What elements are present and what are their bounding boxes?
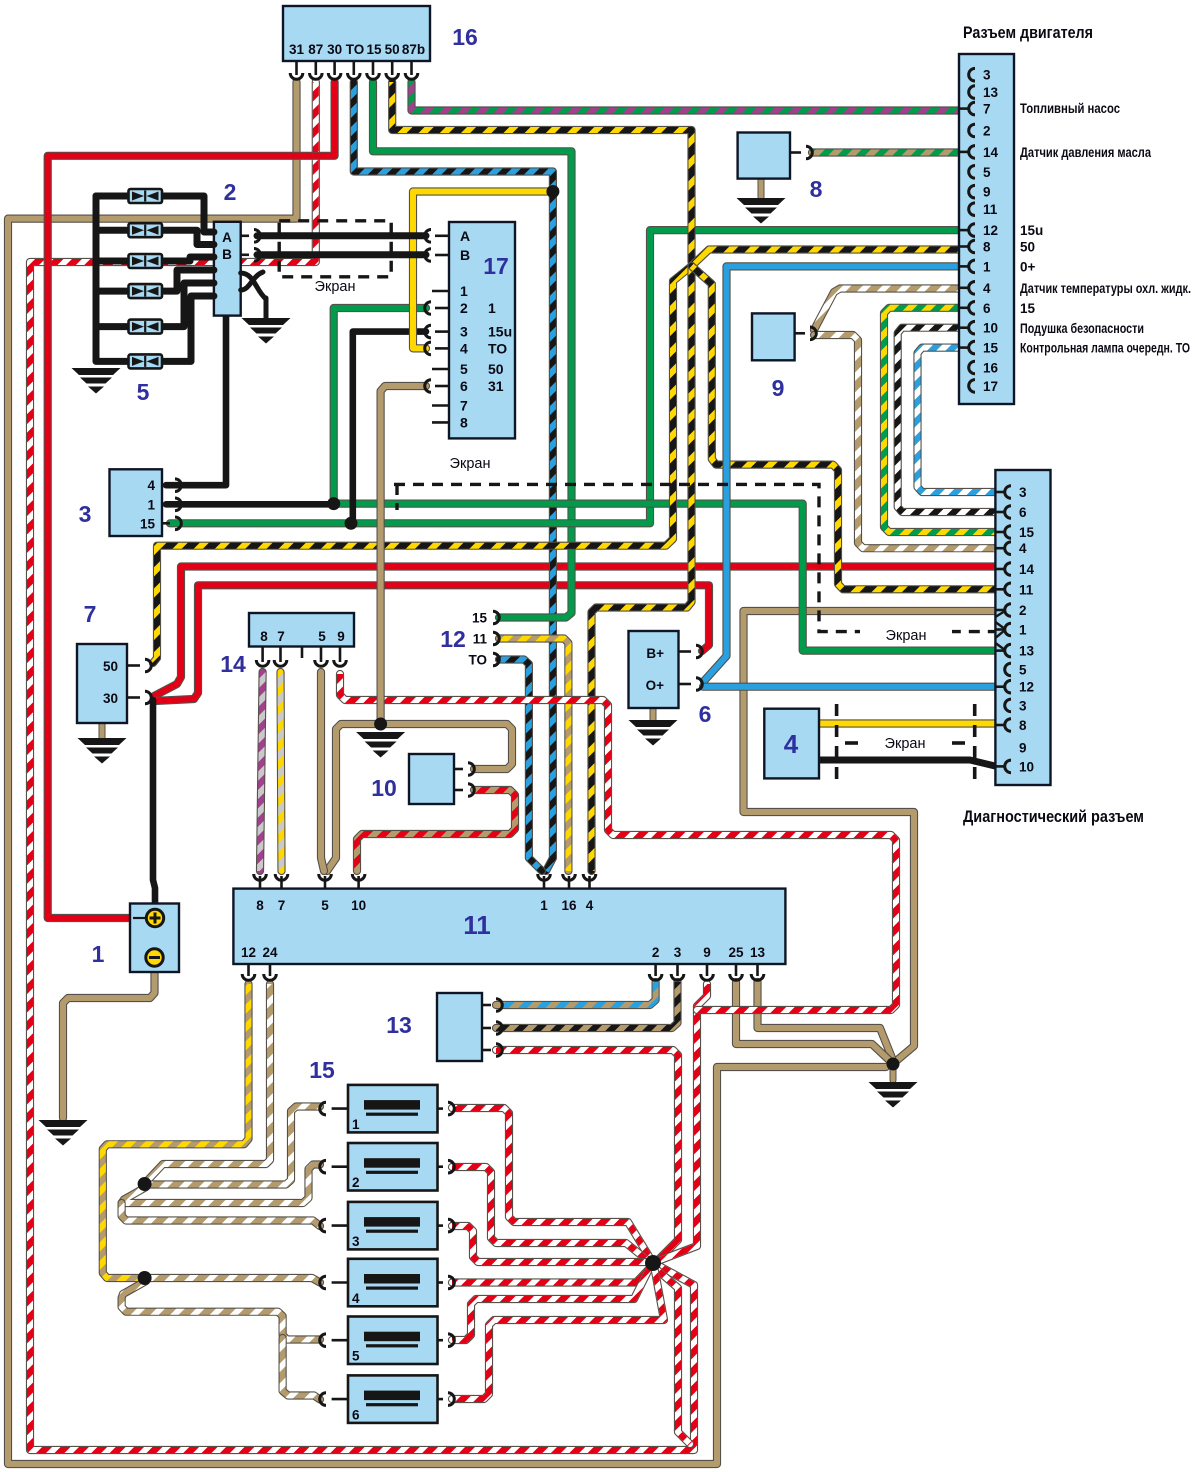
battery plus terminal: [133, 917, 147, 919]
component 4 box: [764, 709, 819, 779]
wire green/purple relay87b to engine pin7: [412, 82, 996, 111]
component 13 box: [437, 993, 482, 1061]
wire red pin30 to B+ of 6: [154, 585, 709, 701]
svg-text:12: 12: [983, 223, 998, 238]
svg-text:15: 15: [309, 1057, 335, 1083]
svg-text:50: 50: [103, 659, 118, 674]
svg-text:50: 50: [1020, 240, 1035, 255]
wire red pin30 to diag pin14: [154, 567, 995, 697]
svg-text:6: 6: [983, 301, 991, 316]
injector 6 symbol: [129, 354, 163, 368]
svg-text:8: 8: [256, 898, 264, 913]
svg-text:1: 1: [540, 898, 548, 913]
wire yellow comp4 to diag pin8: [819, 719, 995, 727]
wire tan/white dot1 to coil2: [122, 1165, 320, 1204]
svg-text:3: 3: [674, 945, 682, 960]
wire black comp7 pin30 to battery plus: [153, 700, 155, 906]
svg-text:1: 1: [488, 300, 496, 316]
injector 5 symbol: [129, 320, 163, 334]
svg-text:15: 15: [472, 611, 488, 626]
wire black/blue relay TO to block11 pin1: [354, 82, 553, 871]
ignition coil 4: [348, 1259, 438, 1307]
svg-text:14: 14: [983, 145, 999, 160]
battery minus terminal: [146, 949, 163, 966]
svg-text:25: 25: [728, 945, 744, 960]
svg-text:15u: 15u: [1020, 223, 1043, 238]
engine connector pins: [959, 68, 975, 392]
svg-text:12: 12: [1019, 680, 1034, 695]
connector 7 pins: [127, 659, 151, 704]
wire purple/gray comp14 pin8 to block11 pin8: [260, 672, 263, 871]
svg-text:7: 7: [983, 102, 991, 117]
svg-text:Подушка безопасности: Подушка безопасности: [1020, 321, 1144, 336]
connector 2 pins A B: [241, 230, 261, 262]
component 8 pin: [790, 146, 812, 159]
wire inj2 left: [96, 227, 129, 234]
wire red/white coil6 to junction: [452, 1271, 664, 1399]
svg-text:TO: TO: [488, 340, 507, 356]
component 10 box: [409, 754, 454, 804]
svg-text:A: A: [222, 230, 232, 245]
svg-text:4: 4: [460, 340, 468, 356]
svg-text:6: 6: [699, 701, 712, 727]
svg-text:50: 50: [385, 42, 400, 57]
wire tan comp6 ground stem: [650, 708, 657, 720]
connector 17 pins: [425, 230, 449, 423]
svg-text:17: 17: [983, 379, 998, 394]
svg-text:30: 30: [327, 42, 342, 57]
svg-text:13: 13: [386, 1012, 412, 1038]
svg-text:14: 14: [220, 651, 246, 677]
svg-text:Датчик температуры охл. жидк.: Датчик температуры охл. жидк.: [1020, 281, 1191, 296]
svg-text:3: 3: [983, 68, 991, 83]
battery 1 box: [130, 904, 179, 973]
diagonal stubs diag pins 2-1-13: [995, 611, 1005, 650]
svg-text:15: 15: [366, 42, 382, 57]
wire tan/red comp10 to block11 pin10: [357, 790, 515, 871]
wire tan ground loop (relay 31 to main ground): [8, 82, 886, 1464]
shield dashed rect around comp2 A/B wires: [279, 221, 391, 277]
svg-text:Экран: Экран: [885, 736, 926, 752]
wire yellow 17pin4 up to dot: [413, 192, 553, 349]
svg-text:4: 4: [784, 729, 799, 759]
svg-text:3: 3: [1019, 698, 1027, 713]
wire black/blue 12 TO to block11 pin1: [499, 660, 542, 872]
svg-text:17: 17: [483, 253, 509, 279]
svg-text:Контрольная лампа очередн. ТО: Контрольная лампа очередн. ТО: [1020, 341, 1190, 356]
junction coil dot1: [138, 1177, 152, 1191]
connector 14 box: [249, 613, 354, 647]
svg-text:4: 4: [983, 281, 991, 296]
svg-text:11: 11: [463, 910, 491, 940]
svg-text:TO: TO: [346, 42, 365, 57]
engine connector box: [959, 54, 1014, 404]
diagnostic connector pins: [995, 486, 1011, 773]
wire inj5 right: [162, 283, 214, 327]
svg-text:4: 4: [352, 1291, 360, 1306]
wire crossover stem: [264, 298, 269, 318]
connector 2 box: [214, 222, 241, 316]
junction main ground dot: [887, 1058, 900, 1071]
wire tan/white comp9 to diag pin4: [814, 335, 995, 548]
svg-text:31: 31: [488, 378, 504, 394]
svg-text:8: 8: [1019, 718, 1027, 733]
block 11 top pins: [254, 874, 596, 889]
wire inj1 left: [96, 193, 129, 200]
wire inj6 left: [96, 358, 129, 365]
wire B wire: [257, 251, 426, 258]
ignition coil 5: [348, 1317, 438, 1365]
svg-text:5: 5: [460, 361, 468, 377]
wire tan block11 pin25 to ground: [736, 982, 889, 1060]
svg-text:24: 24: [262, 945, 278, 960]
relay 16 pins: [290, 61, 418, 79]
svg-text:5: 5: [321, 898, 329, 913]
svg-text:3: 3: [460, 324, 468, 340]
connector 7 box: [77, 644, 127, 723]
svg-text:31: 31: [289, 42, 305, 57]
svg-text:1: 1: [352, 1117, 360, 1132]
injector 3 symbol: [129, 254, 163, 268]
svg-text:2: 2: [352, 1175, 360, 1190]
wire tan/yellow comp12 pin11 to block11 pin16: [499, 639, 568, 872]
wire tan/white comp9 to engine pin4: [814, 289, 995, 331]
svg-text:10: 10: [983, 321, 998, 336]
shield dashes comp4: [837, 704, 975, 782]
wire black comp3 pin1 to junction: [166, 501, 334, 508]
wire green 17pin2 to junction: [334, 308, 426, 504]
wire A wire: [257, 232, 426, 239]
svg-text:15: 15: [1020, 301, 1036, 316]
ignition coil 3: [348, 1202, 438, 1250]
block 11 bottom pins: [242, 964, 764, 980]
wire injector left bus: [93, 196, 100, 361]
svg-text:9: 9: [703, 945, 711, 960]
wire tan/green comp8 to engine pin14: [812, 148, 995, 156]
wire tan/white dot2 to coil4: [145, 1278, 320, 1283]
wire tan/yellow block11 pin12 to coil dot2: [103, 984, 249, 1278]
svg-text:12: 12: [440, 626, 466, 652]
svg-text:15: 15: [140, 516, 156, 531]
wire tan battery minus to ground: [63, 964, 155, 1118]
wire tan/white dot2 to coil5: [122, 1281, 320, 1340]
svg-text:B+: B+: [646, 646, 664, 661]
wire tan/white dot1 to coil3: [122, 1203, 320, 1226]
svg-text:6: 6: [1019, 505, 1027, 520]
diagnostic connector box: [995, 470, 1050, 785]
svg-text:2: 2: [224, 179, 237, 205]
ignition coil 1: [348, 1085, 438, 1133]
svg-text:0+: 0+: [1020, 260, 1036, 275]
injector 4 symbol: [129, 284, 163, 298]
wire inj3 left: [96, 258, 129, 265]
wire red/white junction lower branch: [655, 1268, 690, 1444]
coil 6 pins: [320, 1393, 455, 1406]
wire black 17pin3 to green junction: [353, 332, 426, 524]
svg-text:A: A: [460, 228, 470, 244]
wire black comp4 to diag pin10: [819, 760, 995, 766]
wire blue engine pin1 to O+: [704, 266, 995, 681]
svg-text:4: 4: [586, 898, 594, 913]
svg-text:1: 1: [147, 497, 155, 512]
wire tan/white block11 pin24 to coil dot1: [147, 984, 270, 1181]
svg-text:Экран: Экран: [450, 456, 491, 472]
svg-text:5: 5: [352, 1349, 360, 1364]
wire inj4 left: [96, 288, 129, 295]
wire red relay30 to battery: [48, 82, 335, 918]
injector 2 symbol: [129, 223, 163, 237]
svg-text:9: 9: [772, 375, 785, 401]
svg-text:15: 15: [1019, 525, 1035, 540]
coil 3 pins: [320, 1219, 455, 1232]
junction tan ground junction dot: [374, 718, 387, 731]
ignition coil 6: [348, 1375, 438, 1423]
coil 1 pins: [320, 1102, 455, 1115]
wire black/yellow to engine pin8: [692, 250, 996, 267]
svg-text:11: 11: [473, 632, 488, 647]
ground comp8: [737, 198, 786, 224]
svg-text:1: 1: [1019, 623, 1027, 638]
wire red/white relay 87 loop: [30, 82, 694, 1450]
svg-text:10: 10: [371, 775, 397, 801]
wire green relay15 to comp12 pin15: [373, 82, 572, 618]
wire inj4 right: [162, 270, 214, 291]
wire crossover2: [241, 272, 263, 290]
svg-text:11: 11: [1019, 582, 1034, 597]
wire blue/white engine pin15 to diag pin3: [918, 348, 996, 492]
wire green engine pin12 to comp3 pin15: [170, 230, 995, 523]
junction coil dot2: [138, 1271, 152, 1285]
component 13 pins: [482, 999, 502, 1057]
svg-text:7: 7: [277, 629, 285, 644]
wire red/white coil3 to junction: [452, 1226, 645, 1262]
ground injectors: [72, 368, 121, 394]
svg-text:9: 9: [337, 629, 345, 644]
junction green-black junction dot: [345, 517, 358, 530]
wire tan diag pin2 to ground junction: [744, 611, 996, 1062]
svg-text:9: 9: [1019, 741, 1027, 756]
svg-text:30: 30: [103, 691, 118, 706]
junction yellow-blue/black dot: [546, 185, 559, 198]
svg-text:50: 50: [488, 361, 504, 377]
ground comp7: [78, 738, 127, 764]
component 8 box: [738, 133, 790, 179]
connector 6 pins: [679, 645, 703, 690]
wire inj3 right: [162, 257, 214, 261]
block 11 box: [233, 889, 785, 964]
ground main: [869, 1082, 918, 1108]
wire tan/white dot2 to coil6: [283, 1338, 320, 1400]
svg-text:5: 5: [983, 165, 991, 180]
wire red/white coil1 to junction: [452, 1108, 650, 1258]
wire red/white coil4 to junction: [452, 1268, 650, 1283]
svg-text:15u: 15u: [488, 324, 512, 340]
wire red/white comp14 pin9 long loop: [340, 674, 896, 1010]
svg-text:2: 2: [983, 124, 991, 139]
wire inj5 left: [96, 323, 129, 330]
wire red/white coil2 to junction: [452, 1167, 647, 1260]
wire black/yellow to block11 pin4: [592, 266, 692, 871]
svg-text:2: 2: [1019, 603, 1027, 618]
wire tan ground junction to block11 pin5: [327, 724, 381, 871]
wire tan ground junction to comp10: [381, 724, 512, 769]
svg-text:16: 16: [561, 898, 577, 913]
wire tan/white dot1 to coil1: [145, 1107, 320, 1185]
svg-text:TO: TO: [468, 653, 487, 668]
svg-text:8: 8: [983, 240, 991, 255]
wire tan block11 pin13 to ground: [758, 982, 893, 1058]
svg-text:87: 87: [308, 42, 323, 57]
svg-text:Экран: Экран: [315, 279, 356, 295]
svg-text:12: 12: [241, 945, 256, 960]
wire black comp3 pin4 up to comp2: [166, 316, 226, 485]
svg-text:3: 3: [1019, 485, 1027, 500]
connector 17 box: [449, 222, 515, 438]
svg-text:87b: 87b: [402, 42, 425, 57]
svg-text:9: 9: [983, 185, 991, 200]
wire tan comp7 ground stem: [99, 723, 106, 738]
svg-text:15: 15: [983, 341, 999, 356]
shield dashed line comp2 to diag pin1: [394, 484, 995, 631]
connector 6 box: [629, 631, 679, 708]
svg-text:8: 8: [460, 414, 468, 430]
wire green/yellow engine pin6 to diag pin15: [884, 308, 995, 532]
svg-text:8: 8: [260, 629, 268, 644]
wire green junction to diag pin13: [334, 504, 995, 651]
wire tan main ground stem: [890, 1064, 897, 1080]
connector 3 pins: [162, 479, 181, 530]
wire inj1 right: [162, 196, 214, 232]
wire tan comp14 pin5 to block11 pin5: [321, 672, 324, 871]
wire black/white engine pin10 to diag pin6: [898, 328, 995, 512]
ground tan 17pin6: [356, 732, 405, 758]
svg-text:1: 1: [92, 941, 105, 967]
junction green junction dot: [327, 497, 340, 510]
coil 4 pins: [320, 1276, 455, 1289]
svg-text:13: 13: [983, 85, 999, 100]
svg-text:2: 2: [460, 300, 468, 316]
svg-text:6: 6: [352, 1407, 360, 1422]
svg-text:14: 14: [1019, 562, 1035, 577]
wire yellow/gray comp14 pin7 to block11 pin7: [281, 672, 282, 871]
svg-text:O+: O+: [646, 678, 665, 693]
wire blue O+ to diag pin12: [703, 683, 995, 691]
svg-text:4: 4: [147, 478, 155, 493]
wire black/yellow to comp7 pin50: [153, 266, 692, 663]
svg-text:5: 5: [137, 379, 150, 405]
ground comp6: [629, 720, 678, 746]
svg-text:B: B: [222, 247, 232, 262]
ground comp2 shield: [242, 318, 291, 344]
svg-text:Топливный насос: Топливный насос: [1020, 101, 1120, 116]
wire crossover: [241, 273, 266, 299]
component 9 pin: [795, 327, 817, 340]
wire tan comp8 ground stem: [758, 179, 765, 197]
wire black/yellow to diag pin11: [692, 266, 996, 589]
wire tan/black comp13 pin2 to block11 pin3: [496, 982, 678, 1028]
wire inj2 right: [162, 230, 214, 244]
svg-text:10: 10: [351, 898, 366, 913]
svg-text:11: 11: [983, 202, 998, 217]
svg-text:1: 1: [983, 259, 991, 274]
junction coil star junction: [645, 1255, 661, 1271]
wire inj6 right: [162, 296, 214, 361]
ground battery: [39, 1120, 88, 1146]
injector 1 symbol: [129, 189, 163, 203]
svg-text:5: 5: [1019, 663, 1027, 678]
component 9 box: [752, 313, 795, 360]
svg-text:Диагностический разъем: Диагностический разъем: [963, 808, 1144, 826]
svg-text:Разъем двигателя: Разъем двигателя: [963, 24, 1093, 42]
svg-text:Датчик давления масла: Датчик давления масла: [1020, 145, 1151, 160]
svg-text:6: 6: [460, 378, 468, 394]
wire red/white comp13 pin3 to junction: [496, 1050, 678, 1261]
svg-text:5: 5: [318, 629, 326, 644]
svg-text:8: 8: [810, 176, 823, 202]
wire tan 17pin6 down to ground junction: [381, 386, 426, 724]
svg-text:4: 4: [1019, 541, 1027, 556]
coil 5 pins: [320, 1334, 455, 1347]
svg-text:1: 1: [460, 283, 468, 299]
svg-text:7: 7: [278, 898, 286, 913]
svg-text:2: 2: [652, 945, 660, 960]
svg-text:16: 16: [983, 361, 999, 376]
svg-text:13: 13: [1019, 644, 1035, 659]
svg-text:Экран: Экран: [886, 628, 927, 644]
connector 14 pins: [256, 647, 346, 667]
svg-text:7: 7: [84, 601, 97, 627]
coil 2 pins: [320, 1160, 455, 1173]
wire red/white coil5 to junction: [452, 1269, 649, 1340]
wire red/white block11 pin9 to junction: [655, 984, 707, 1262]
svg-text:3: 3: [352, 1234, 360, 1249]
wire tan/blue comp13 pin1 to block11 pin2: [496, 982, 656, 1005]
svg-text:B: B: [460, 247, 470, 263]
connector 3 box: [110, 469, 163, 536]
svg-text:13: 13: [750, 945, 766, 960]
wire black/yellow relay50 main drop: [392, 82, 691, 262]
svg-text:10: 10: [1019, 759, 1034, 774]
svg-text:3: 3: [79, 501, 92, 527]
component 10 pins: [454, 763, 474, 797]
svg-text:7: 7: [460, 398, 468, 414]
ignition coil 2: [348, 1143, 438, 1191]
relay 16 box: [283, 6, 430, 61]
svg-text:16: 16: [452, 24, 478, 50]
